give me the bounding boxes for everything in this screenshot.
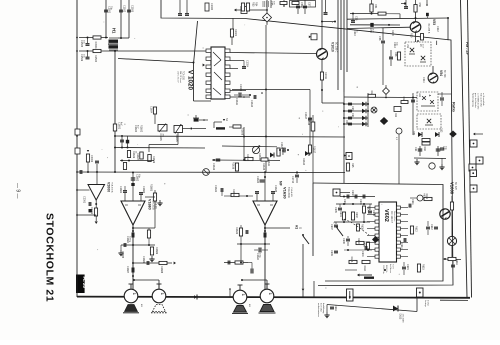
filled diamond near IC <box>372 236 379 243</box>
pot R1605 box <box>174 126 183 133</box>
connector black cap x196 <box>193 117 199 119</box>
svg-text:C612: C612 <box>430 224 433 230</box>
svg-text:BF 324: BF 324 <box>443 70 445 78</box>
ground ratio 2 <box>441 158 443 164</box>
svg-text:R605: R605 <box>361 224 364 230</box>
svg-text:R602: R602 <box>355 212 358 218</box>
capacitor C613 <box>434 226 438 228</box>
pin 13 V602 right <box>397 234 401 237</box>
svg-text:C56: C56 <box>300 2 303 7</box>
svg-text:D52: D52 <box>440 128 443 133</box>
capacitor C614 <box>403 238 405 242</box>
svg-text:FL 20: FL 20 <box>82 277 87 289</box>
svg-text:C611: C611 <box>411 199 414 205</box>
capacitor C1601 on x115 <box>113 124 116 131</box>
svg-text:C614: C614 <box>400 243 403 249</box>
svg-text:C603: C603 <box>359 199 362 205</box>
resistor R606 <box>367 242 370 249</box>
wire y18 to resistor <box>232 18 234 29</box>
loudspeaker B1 <box>124 289 138 303</box>
wire into box <box>340 192 350 194</box>
svg-text:Ω: Ω <box>299 227 303 229</box>
wire headphone <box>265 227 290 229</box>
elco C1613 <box>216 158 221 160</box>
wire B4 feed <box>242 279 267 281</box>
diode on bus <box>194 295 197 299</box>
resistor R57 <box>397 52 400 60</box>
wire decoder y250 <box>344 249 372 251</box>
trimmer L52 <box>421 56 425 60</box>
resistor R1606 <box>127 151 130 158</box>
trimmer L51 <box>410 48 414 52</box>
ground arrow right <box>174 262 176 265</box>
resistor R62 <box>401 101 408 104</box>
wire y89 <box>232 89 310 91</box>
pin 7 V1020 left <box>206 95 211 98</box>
connector K1 top <box>234 9 236 12</box>
svg-text:C1632: C1632 <box>256 176 259 184</box>
ground ratio 1 <box>416 159 418 162</box>
arrow V2000 out <box>95 221 98 224</box>
pin 9 V602 right <box>397 206 401 209</box>
pilot lamp wire <box>327 305 417 312</box>
svg-text:D613: D613 <box>399 314 402 320</box>
svg-text:R1610: R1610 <box>258 153 261 161</box>
bootstrap wire 2 <box>237 243 270 245</box>
svg-text:R1021: R1021 <box>234 29 237 37</box>
capacitor C1612 <box>253 95 255 99</box>
resistor R1611 <box>277 148 280 156</box>
filter block <box>394 107 401 112</box>
svg-text:C1030: C1030 <box>210 3 213 11</box>
pin 5 V1020 left <box>206 81 211 84</box>
transistor V53 <box>410 22 421 33</box>
capacitor C1602 between <box>121 136 123 148</box>
svg-text:R603: R603 <box>357 238 360 244</box>
svg-text:TCA 530 A: TCA 530 A <box>111 182 114 193</box>
wire stubs x180 x187 <box>179 0 181 13</box>
capacitor C1034 <box>303 5 307 7</box>
wire right frame outer <box>468 0 472 298</box>
capacitor C1631 <box>220 188 222 192</box>
svg-text:R1602: R1602 <box>140 125 143 133</box>
op-amp V2000 regulator <box>88 185 105 201</box>
svg-text:R1608: R1608 <box>241 128 244 136</box>
antenna circle on y172 <box>203 169 210 176</box>
trim pot circle <box>252 146 259 153</box>
svg-text:R65: R65 <box>351 163 354 168</box>
wire stub x267 <box>266 0 268 25</box>
wire mesh decoder y222 <box>334 221 370 223</box>
wire IC bottom <box>194 100 212 102</box>
resistor R1608 <box>233 125 241 128</box>
feedback resistor R1683 <box>153 193 156 201</box>
wire stub x427 <box>426 0 428 5</box>
capacitor C602 <box>354 195 356 199</box>
svg-text:4,7µ: 4,7µ <box>372 29 374 34</box>
wire mesh decoder y204 <box>336 203 372 205</box>
wire vertical x344 long <box>343 92 345 183</box>
svg-text:C55: C55 <box>270 1 273 6</box>
capacitor C56b <box>381 40 385 42</box>
svg-text:FM - ZF: FM - ZF <box>465 42 469 56</box>
resistor R59 <box>422 139 430 142</box>
right margin arrow <box>473 133 475 136</box>
bus connector X604 <box>417 288 424 297</box>
svg-text:C1024: C1024 <box>246 60 249 68</box>
elco C1632 <box>260 179 265 181</box>
resistor R60 <box>422 142 430 145</box>
pin 9 V1020 right <box>225 57 230 60</box>
svg-text:R60: R60 <box>423 147 426 152</box>
capacitor C53 stub <box>352 14 354 21</box>
pin 3 V602 left <box>375 220 379 223</box>
op-amp IC V1020 body <box>211 47 225 99</box>
svg-text:4Ω: 4Ω <box>140 304 142 307</box>
elco C1603 black <box>127 136 129 148</box>
svg-text:470n: 470n <box>310 118 312 124</box>
dashed mechanical link <box>344 219 369 235</box>
svg-text:C1502: C1502 <box>123 5 126 13</box>
wire ratio y97 <box>344 96 417 99</box>
svg-text:bei 8 Ohm: bei 8 Ohm <box>320 303 322 313</box>
svg-text:1 Wl At NS: 1 Wl At NS <box>290 187 293 197</box>
pin 5 V602 left <box>375 234 379 237</box>
headphone switch <box>303 236 309 244</box>
svg-text:Hub an 60 Ohm: Hub an 60 Ohm <box>479 93 481 107</box>
svg-text:R1631: R1631 <box>232 189 235 197</box>
connector arrow on bus x311 <box>309 35 311 38</box>
capacitor C1683 <box>140 195 142 201</box>
resistor R1609 box <box>148 155 151 162</box>
wire vertical D x347 <box>346 0 348 72</box>
wire pot out <box>183 128 192 130</box>
svg-text:C1687: C1687 <box>126 266 129 274</box>
elco C1684 <box>132 230 134 232</box>
svg-text:C1634: C1634 <box>256 253 259 261</box>
wire x413 <box>412 93 414 135</box>
svg-text:C1505: C1505 <box>80 40 83 48</box>
svg-text:R58: R58 <box>394 52 397 57</box>
svg-text:C1501: C1501 <box>108 6 111 14</box>
trim circle X <box>371 107 377 113</box>
polarized cap C57 <box>426 13 429 16</box>
svg-text:C64: C64 <box>351 113 354 118</box>
trim coil circle 2 <box>429 163 435 169</box>
NF stereo decoder box <box>313 183 443 281</box>
svg-text:MC 1310 P: MC 1310 P <box>390 211 393 223</box>
svg-text:C58: C58 <box>378 36 381 41</box>
capacitor C1617 <box>308 117 312 119</box>
right margin connector 3 <box>469 164 476 171</box>
wire y172 long <box>77 171 345 174</box>
diode D1611 <box>270 153 274 158</box>
resistor R1607 box <box>140 152 143 159</box>
connector X601 <box>333 189 340 196</box>
stereo lamp <box>417 195 423 201</box>
FM-ZF section box <box>161 0 453 286</box>
decoder ground bar <box>357 274 359 277</box>
capacitor C1506 <box>87 51 89 57</box>
svg-text:C52: C52 <box>369 29 372 34</box>
resistor R1631 <box>231 193 239 196</box>
svg-text:C602: C602 <box>351 190 354 196</box>
svg-text:C1682: C1682 <box>136 174 139 182</box>
capacitor C608 <box>346 238 350 240</box>
capacitor C1685 <box>123 243 125 247</box>
wire stub pin right 7 <box>230 96 250 98</box>
limiter row 2 <box>344 110 368 112</box>
resistor R604 <box>363 206 366 213</box>
wire vertical C x344 <box>343 0 345 92</box>
svg-text:L61: L61 <box>418 93 421 98</box>
wire V1010 emitter <box>321 60 323 104</box>
svg-text:C1631: C1631 <box>214 185 217 193</box>
wire box bottom to bus x314 <box>313 281 315 297</box>
resistor R1001 <box>450 202 453 210</box>
pin 14 V1020 right <box>225 95 230 98</box>
svg-text:C608: C608 <box>342 238 345 244</box>
svg-text:V1010: V1010 <box>331 42 335 52</box>
wire V53 base <box>347 27 410 28</box>
svg-text:100µ: 100µ <box>259 253 261 259</box>
pot loop wires <box>177 133 179 145</box>
svg-text:4 Ohm: 4 Ohm <box>427 300 429 306</box>
pin 13 V1020 right <box>225 89 230 92</box>
wire left frame vertical <box>76 0 78 297</box>
right margin connector 1 <box>470 140 477 147</box>
wire right frame inner <box>461 0 468 297</box>
filled diamond near frame <box>449 131 457 138</box>
svg-text:4Ω: 4Ω <box>248 304 250 307</box>
transistor V54 <box>428 73 438 83</box>
resistor R613 <box>349 260 357 263</box>
V1020 internal transistors <box>213 52 221 60</box>
svg-text:C1605: C1605 <box>159 134 162 142</box>
svg-text:C615: C615 <box>406 264 409 270</box>
feedback wire <box>133 227 155 229</box>
connector left ratio <box>344 154 346 157</box>
pin 11 V1020 right <box>225 73 230 76</box>
resistor R56 collector <box>414 5 417 13</box>
svg-text:C1503: C1503 <box>131 5 134 13</box>
svg-text:R62: R62 <box>402 97 405 102</box>
op-amp V1680 TDA2003 <box>121 201 145 225</box>
wire right corner down <box>447 18 449 40</box>
wire V2000 out <box>95 200 97 208</box>
capacitor C1502 <box>120 0 122 38</box>
wire y13.5 <box>350 13 400 15</box>
transformer H1 <box>109 37 118 39</box>
bootstrap wire <box>121 244 155 246</box>
svg-text:C1026: C1026 <box>239 84 242 92</box>
svg-text:C313: C313 <box>393 42 396 48</box>
wire top inside box <box>340 196 375 198</box>
wire x303 to bus <box>302 244 304 297</box>
resistor R1684 <box>147 230 150 238</box>
svg-text:R612: R612 <box>415 226 418 232</box>
right margin connector 5 <box>470 170 477 177</box>
svg-text:D51: D51 <box>412 131 415 136</box>
wire V1680 output down <box>132 225 134 289</box>
limiter row 4 <box>344 123 368 125</box>
svg-text:C53: C53 <box>355 16 358 21</box>
resistor R52 outline <box>378 12 386 15</box>
svg-text:C1506: C1506 <box>80 54 83 62</box>
svg-text:L51: L51 <box>406 44 409 49</box>
capacitor C1637 <box>245 230 247 234</box>
svg-text:V2000: V2000 <box>107 182 111 192</box>
main AF wire y136 <box>115 136 345 137</box>
wire stub x406 <box>405 0 407 6</box>
resistor R1686 <box>150 247 153 255</box>
trim capacitor C1605 box <box>158 125 167 132</box>
wire bottom speaker bus <box>77 297 470 298</box>
capacitor C1503 <box>128 0 130 38</box>
svg-text:C310: C310 <box>353 30 356 36</box>
capacitor C609 <box>334 250 338 252</box>
svg-text:R1605: R1605 <box>175 135 178 143</box>
coil circle small <box>396 128 402 134</box>
svg-text:V 1020: V 1020 <box>187 70 194 90</box>
capacitor C1712 <box>295 174 299 176</box>
pin 4 V1020 left <box>206 73 211 76</box>
capacitor C1635 <box>272 194 274 201</box>
resistor R1032 <box>246 3 249 11</box>
elco C65 right <box>440 97 444 99</box>
wire sloped to IC pin <box>118 59 194 63</box>
wire stub pin right 3 <box>230 68 238 70</box>
svg-text:2200µ: 2200µ <box>129 236 131 243</box>
svg-text:C609: C609 <box>330 250 333 256</box>
transistor V1010 <box>317 49 328 60</box>
svg-text:R1609: R1609 <box>152 156 155 164</box>
svg-text:C1686: C1686 <box>142 256 145 264</box>
wire x244 down <box>243 127 245 160</box>
resistor R602 <box>351 212 354 220</box>
wire x313 components <box>312 115 314 183</box>
scan speckle <box>203 48 204 49</box>
svg-text:C1681: C1681 <box>119 186 122 194</box>
diode pair D1612 <box>305 151 309 156</box>
pin 6 V1020 left <box>206 89 211 92</box>
svg-text:R1683: R1683 <box>150 184 153 192</box>
resistor below connector <box>346 163 349 171</box>
op-amp V1630 TDA2003 <box>253 201 277 225</box>
capacitor C1702 on frame <box>79 170 81 174</box>
loudspeaker B3 <box>233 290 247 304</box>
svg-text:C1617: C1617 <box>304 112 307 120</box>
svg-text:C1683: C1683 <box>142 186 145 194</box>
svg-text:C1611: C1611 <box>235 98 238 106</box>
elco C1636 <box>264 230 266 232</box>
ratio transformer dashed lower <box>417 114 441 129</box>
resistor R612 <box>410 226 413 234</box>
svg-text:R601: R601 <box>339 211 342 217</box>
corner components bottom right <box>443 258 461 261</box>
elco C1634 <box>258 248 260 253</box>
svg-text:R615: R615 <box>422 264 425 270</box>
svg-text:R51: R51 <box>374 4 377 9</box>
elco C1611 <box>238 93 240 98</box>
svg-text:gem. bei Sender: gem. bei Sender <box>474 93 476 108</box>
wire y158 <box>414 157 446 160</box>
connector on frame 1 <box>75 129 80 135</box>
resistor R1612 below <box>123 163 126 170</box>
elco C1618 <box>311 122 315 131</box>
wire transformer top right <box>118 37 129 39</box>
wire y24.8 with elco <box>350 24 400 26</box>
svg-text:R54: R54 <box>255 2 258 7</box>
svg-text:C1618: C1618 <box>307 118 310 126</box>
svg-text:R310: R310 <box>391 30 394 36</box>
wire decoder bottom <box>345 269 357 271</box>
svg-text:C607: C607 <box>330 224 333 230</box>
capacitor C1501 <box>105 0 107 38</box>
limiter row 3 <box>344 117 368 119</box>
pin 6 V602 left <box>375 241 379 244</box>
resistor R1633 <box>239 228 242 236</box>
pin 8 V602 left <box>375 255 379 258</box>
svg-text:C1635: C1635 <box>274 185 277 193</box>
svg-text:1 mV EMK 40 kHz: 1 mV EMK 40 kHz <box>477 93 479 109</box>
svg-text:C604: C604 <box>361 251 364 257</box>
wire top stubs misc <box>270 0 272 8</box>
capacitor C1033 <box>296 5 300 7</box>
svg-text:R613: R613 <box>350 257 353 263</box>
wire vertical B x338 <box>337 0 339 90</box>
lamp V1001 <box>447 236 456 245</box>
svg-text:C312: C312 <box>436 26 439 32</box>
wire x193 vertical <box>194 21 198 64</box>
loudspeaker B2 cone dashed <box>153 305 166 312</box>
pin 4 V602 left <box>375 227 379 230</box>
resistor R2001 <box>94 208 97 216</box>
svg-text:C1604: C1604 <box>150 106 153 114</box>
capacitor C58b <box>389 56 393 58</box>
wire x368 vertical <box>367 93 369 127</box>
svg-text:D1612: D1612 <box>302 158 305 166</box>
capacitor C1686 row <box>133 262 172 264</box>
wire V53 emitter <box>415 32 417 42</box>
elco black V2000 <box>89 209 92 212</box>
wire V1020 to V1010 base <box>230 53 316 54</box>
test diamond on stem <box>383 88 390 95</box>
svg-text:R1502: R1502 <box>94 55 97 63</box>
svg-text:R611: R611 <box>425 194 428 200</box>
svg-text:R1616: R1616 <box>232 162 235 170</box>
elco C1638 <box>248 262 252 264</box>
capacitor C1505 <box>87 38 89 44</box>
capacitor C1633 <box>256 194 258 201</box>
svg-text:C1684: C1684 <box>126 236 129 244</box>
resistor R603 <box>356 241 364 244</box>
pin 2 V602 left <box>375 213 379 216</box>
diode D51 <box>418 132 422 137</box>
resistor R601 <box>342 212 345 220</box>
wire antenna lower <box>79 50 211 52</box>
resistor R605 <box>357 224 360 231</box>
capacitor C607 <box>334 224 338 226</box>
filled diamond test point <box>380 117 388 125</box>
mono stereo switch <box>337 228 343 236</box>
svg-text:R1617: R1617 <box>313 146 316 154</box>
capacitor C615 <box>402 266 406 268</box>
svg-text:Spannungsang.: Spannungsang. <box>472 93 474 107</box>
svg-text:R1501: R1501 <box>94 42 97 50</box>
capacitor C2001 <box>88 202 90 206</box>
svg-text:V1000: V1000 <box>450 182 455 195</box>
